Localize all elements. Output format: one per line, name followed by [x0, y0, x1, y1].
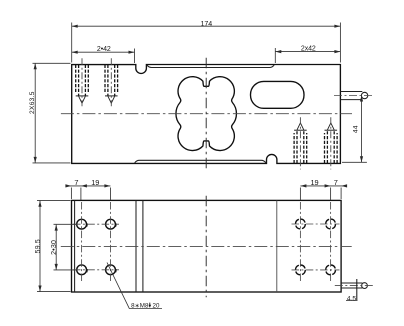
cable exit (side view) [341, 282, 362, 284]
svg-text:4.5: 4.5 [347, 296, 357, 303]
obround (stadium) cutout [251, 81, 305, 108]
svg-text:19: 19 [91, 178, 99, 187]
dimension 2*30 hole spacing [55, 225, 57, 270]
horizontal centerline of top view [61, 113, 352, 115]
horizontal centerline (side view) [61, 245, 352, 247]
svg-text:174: 174 [201, 20, 213, 28]
threaded hole R2 [326, 219, 336, 229]
centerline of hole T1 [81, 58, 83, 106]
dimension 2*42 left [72, 51, 135, 53]
svg-text:2x42: 2x42 [301, 46, 316, 53]
svg-text:2•42: 2•42 [97, 46, 111, 53]
svg-text:8∗M8: 8∗M8 [131, 303, 149, 310]
dimension 4.5 cable [356, 279, 358, 300]
dimension 2x42 right [275, 51, 340, 53]
central clover-shaped flexure cutout [176, 77, 237, 151]
cable centerline [334, 95, 373, 97]
load cell body outline (plan view) [72, 65, 341, 164]
dimensions 7 and 19 left group [66, 185, 111, 187]
centerline of hole B1 [299, 117, 301, 169]
top ledge edge line [147, 65, 274, 68]
centerline of hole T2 [110, 58, 112, 106]
hidden tapped hole B1 (bottom edge) [293, 133, 295, 163]
svg-text:2X63.5: 2X63.5 [29, 91, 36, 114]
svg-text:20: 20 [153, 303, 160, 310]
hidden tapped hole B2 (bottom edge) [324, 133, 326, 163]
hidden tapped hole T2 (top edge) [104, 65, 106, 94]
inner edge line pair (scallop projection) [135, 200, 137, 292]
vertical centerline through clover [205, 58, 207, 172]
mounting hole L4 [106, 265, 116, 275]
svg-text:2•30: 2•30 [51, 240, 58, 255]
dimension 2X63.5 height [34, 63, 36, 163]
bottom ledge edge line [135, 160, 266, 163]
mounting hole L3 [77, 265, 87, 275]
dimension 174 overall length [72, 25, 341, 27]
dimensions 19 and 7 right group [300, 185, 347, 187]
svg-text:19: 19 [310, 178, 318, 187]
threaded hole R3 [296, 265, 306, 275]
threaded hole R1 [296, 219, 306, 229]
leader 8*M8 depth 20 [107, 263, 162, 309]
cable centerline (side view) [335, 285, 373, 287]
hole centerlines right group [292, 223, 340, 225]
centerline of hole B2 [330, 117, 332, 169]
threaded hole R4 [326, 265, 336, 275]
svg-text:44: 44 [353, 125, 360, 133]
hole centerlines left group [73, 223, 119, 225]
mounting hole L2 [106, 219, 116, 229]
cable exit (plan view) [340, 91, 362, 93]
svg-text:7: 7 [334, 178, 338, 187]
vertical centerline (side view) [205, 196, 207, 298]
svg-text:7: 7 [74, 178, 78, 187]
inner edge line right (notch projection) [276, 200, 278, 292]
body outline (side view) [72, 200, 342, 292]
dimension 59.5 overall height [39, 201, 41, 292]
hidden tapped hole T1 (top edge) [75, 65, 77, 94]
dimension 44 cable height [361, 96, 363, 163]
svg-text:59.5: 59.5 [35, 239, 42, 253]
inner edge line near left [74, 200, 76, 292]
mounting hole L1 [77, 219, 87, 229]
